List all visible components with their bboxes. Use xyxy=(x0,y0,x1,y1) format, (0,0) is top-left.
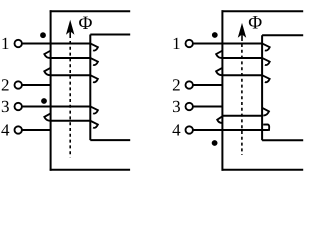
winding 3-4 crossing wire (left figure) xyxy=(51,120,91,122)
terminal 4 circle (right figure) xyxy=(186,126,193,133)
winding 3-4 turn loop above-right of limb (right figure) xyxy=(262,108,269,116)
right winding top lead (right figure) xyxy=(262,34,303,36)
winding 1-2 turn loop right of limb 3 (right figure) xyxy=(263,75,270,82)
flux line (dashed) left figure xyxy=(69,41,71,157)
terminal 3 circle (right figure) xyxy=(186,103,193,110)
terminal 2 wire (left figure) xyxy=(22,84,51,86)
winding 1-2 crossing wire 2 (left figure) xyxy=(51,74,91,76)
terminal 1 circle (right figure) xyxy=(186,40,193,47)
winding 1-2 turn loop right of limb (left figure) xyxy=(91,44,98,51)
winding 1-2 turn loop left of limb 2 (left figure) xyxy=(44,68,51,76)
winding 3-4 turn loop left of limb (left figure) xyxy=(44,113,51,121)
winding 1-2 turn loop right of limb 2 (left figure) xyxy=(91,58,98,65)
core left edge (right figure) xyxy=(221,10,223,170)
winding 3-4 crossing wire (right figure) xyxy=(223,115,263,117)
polarity dot near terminal 1 (right figure) xyxy=(212,32,218,38)
winding 3-4 turn loop at wire 4 end (right figure) xyxy=(263,124,269,130)
polarity dot near terminal 1 (left figure) xyxy=(40,32,46,38)
winding 3-4 turn loop below-left of limb (right figure) xyxy=(217,116,222,123)
winding 1-2 turn loop left of limb (right figure) xyxy=(216,51,223,59)
core top edge (right figure) xyxy=(222,10,304,12)
winding 1-2 turn loop left of limb (left figure) xyxy=(44,51,51,59)
svg-text:Φ: Φ xyxy=(248,13,262,34)
svg-text:4: 4 xyxy=(172,121,181,140)
core bottom edge (left figure) xyxy=(50,169,130,171)
svg-text:1: 1 xyxy=(172,34,181,53)
terminal 2 wire (right figure) xyxy=(193,84,223,86)
svg-text:1: 1 xyxy=(1,34,10,53)
terminal 1 wire (left figure) xyxy=(22,43,91,45)
terminal 2 circle (left figure) xyxy=(15,81,22,88)
terminal 2 circle (right figure) xyxy=(186,81,193,88)
terminal 3 wire (right figure) xyxy=(193,106,223,108)
terminal 4 wire (left figure) xyxy=(22,129,51,131)
right winding top lead (left figure) xyxy=(90,34,130,36)
winding 1-2 crossing wire (right figure) xyxy=(223,57,263,59)
core bottom edge (right figure) xyxy=(222,169,304,171)
flux arrowhead right figure xyxy=(239,24,246,36)
svg-text:Φ: Φ xyxy=(79,13,93,34)
core right limb (left figure) xyxy=(89,35,91,141)
core top edge (left figure) xyxy=(50,10,131,12)
polarity dot near terminal 4 (right figure) xyxy=(212,140,218,146)
terminal 4 wire (right figure) xyxy=(193,129,268,131)
polarity dot near terminal 3 (left figure) xyxy=(41,98,47,104)
terminal 1 wire (right figure) xyxy=(193,43,263,45)
svg-text:3: 3 xyxy=(1,97,10,116)
right winding bottom lead (left figure) xyxy=(90,139,130,141)
svg-text:3: 3 xyxy=(172,97,181,116)
flux arrow shaft solid segment right figure xyxy=(241,34,243,41)
terminal 3 wire (left figure) xyxy=(22,106,91,108)
flux arrowhead left figure xyxy=(67,21,74,33)
winding 1-2 turn loop right of limb (right figure) xyxy=(263,44,270,51)
svg-text:2: 2 xyxy=(172,76,181,95)
winding 3-4 turn loop right of limb 2 (left figure) xyxy=(91,121,98,128)
right winding bottom lead (right figure) xyxy=(262,139,303,141)
svg-text:4: 4 xyxy=(1,121,10,140)
core right limb (right figure) xyxy=(261,35,263,140)
winding 1-2 crossing wire 2 (right figure) xyxy=(223,74,263,76)
terminal 3 circle (left figure) xyxy=(15,103,22,110)
winding 1-2 turn loop left of limb 2 (right figure) xyxy=(216,68,223,76)
terminal 1 circle (left figure) xyxy=(15,40,22,47)
winding 1-2 turn loop right of limb 3 (left figure) xyxy=(91,75,98,82)
winding 1-2 crossing wire (left figure) xyxy=(51,57,91,59)
flux arrow shaft solid segment left figure xyxy=(69,31,71,38)
winding 3-4 turn loop right of limb (left figure) xyxy=(91,107,98,114)
svg-text:2: 2 xyxy=(1,76,10,95)
core left edge (left figure) xyxy=(50,10,52,170)
terminal 4 circle (left figure) xyxy=(15,126,22,133)
flux line (dashed) right figure xyxy=(241,44,243,155)
winding 1-2 turn loop right of limb 2 (right figure) xyxy=(263,58,270,65)
